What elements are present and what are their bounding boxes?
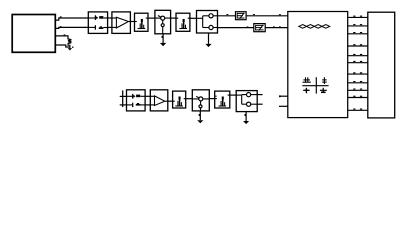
wire — [168, 100, 173, 102]
module U6 — [368, 12, 395, 118]
pin wire 9 — [348, 89, 368, 91]
wire — [265, 27, 288, 29]
pin wire 6 — [348, 61, 368, 63]
ground — [68, 47, 74, 51]
IC U3 — [288, 12, 348, 118]
wire — [55, 18, 88, 20]
diode D1A — [88, 15, 107, 20]
pin number tick — [273, 26, 275, 27]
wire — [120, 95, 127, 97]
ground — [320, 88, 327, 93]
pin number tick — [247, 27, 249, 28]
pin wire 2 — [348, 24, 368, 26]
wire — [120, 104, 127, 106]
wire — [246, 15, 288, 17]
pin wire 3 — [348, 32, 368, 34]
pin number tick — [60, 26, 62, 27]
ground — [205, 33, 211, 47]
wire — [257, 94, 262, 96]
wire — [108, 17, 112, 19]
wire — [130, 21, 134, 23]
amplifier U1 — [112, 12, 130, 34]
balun T1 — [236, 12, 247, 20]
splitter U5 — [236, 91, 257, 112]
wire — [257, 103, 262, 105]
wire — [315, 77, 317, 93]
wire — [55, 45, 70, 47]
pin wire 8 — [348, 81, 368, 83]
pin wire 7 — [348, 72, 368, 74]
pin number tick — [60, 16, 62, 17]
TVS diode pack D1 — [88, 12, 107, 34]
wire — [190, 17, 197, 19]
wire — [230, 94, 236, 96]
wire — [302, 85, 328, 87]
diode D2A — [127, 94, 146, 99]
pin wire 10 — [348, 96, 368, 98]
pin number tick — [64, 34, 66, 35]
wire — [279, 105, 288, 107]
TVS diode pack D2 — [127, 90, 146, 111]
balun T2 — [254, 24, 265, 32]
diode D2B — [127, 103, 146, 107]
filter FL3 — [173, 91, 186, 108]
resistor R1 — [68, 39, 71, 48]
splitter U2 — [197, 11, 218, 34]
wire — [145, 104, 150, 106]
wire — [55, 27, 88, 28]
wire — [55, 36, 68, 39]
wire — [171, 17, 176, 19]
node bus — [122, 90, 124, 107]
pin number tick — [215, 95, 217, 98]
ground — [197, 111, 203, 123]
amplifier U4 — [150, 90, 168, 111]
ground — [243, 112, 249, 125]
ground — [303, 88, 309, 93]
wire — [209, 98, 214, 100]
pin number tick — [279, 26, 281, 27]
wire — [186, 98, 193, 100]
pin wire 5 — [348, 54, 368, 56]
pin number tick — [253, 14, 255, 15]
filter FL2 — [176, 13, 190, 31]
wire — [218, 27, 254, 29]
connector J1 — [12, 15, 55, 53]
filter FL4 — [215, 91, 230, 108]
wire — [108, 26, 112, 28]
wire — [218, 15, 236, 17]
switch S1 — [155, 10, 171, 34]
pin wire 4 — [348, 44, 368, 46]
pin wire 11 — [348, 109, 368, 111]
inductor L1 — [299, 25, 330, 29]
pin number tick — [226, 14, 228, 15]
wire — [148, 17, 155, 19]
pin number tick — [279, 14, 281, 15]
diode D1B — [88, 25, 107, 30]
wire — [145, 95, 150, 97]
filter FL1 — [135, 13, 149, 31]
wire — [279, 95, 288, 97]
switch S2 — [192, 90, 209, 111]
pin wire 1 — [348, 16, 368, 18]
capacitor C1 — [303, 77, 311, 82]
ground — [160, 34, 166, 46]
capacitor C2 — [322, 77, 327, 84]
